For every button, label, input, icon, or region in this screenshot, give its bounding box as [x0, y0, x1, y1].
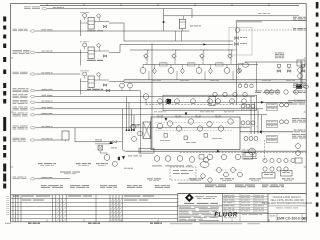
left small notes	[95, 140, 102, 142]
vessel B	[140, 112, 150, 153]
line to right top	[237, 21, 307, 22]
group1 outlet	[109, 23, 124, 41]
bus turn-downs	[126, 97, 135, 132]
mid note	[275, 53, 284, 59]
notes under	[111, 148, 133, 169]
cluster circles left	[131, 125, 143, 142]
header lines mid	[120, 41, 233, 50]
pump/valve groups row	[140, 50, 240, 80]
equip text mid	[60, 172, 80, 174]
long drop vertical	[122, 109, 126, 151]
tiny text above line	[258, 12, 270, 15]
line label L10	[13, 100, 260, 104]
destination labels top right	[293, 17, 306, 21]
line label L2	[13, 29, 164, 32]
in-box dashes	[155, 123, 235, 131]
group header line	[143, 63, 258, 65]
dark arrow mid	[109, 141, 113, 145]
L5 symbols	[106, 83, 140, 112]
offpage line A	[258, 100, 306, 104]
small box X	[98, 146, 103, 151]
title text	[262, 196, 312, 205]
footer text right	[5, 223, 260, 224]
group2 outlet	[109, 44, 120, 52]
capsule label mid	[238, 63, 249, 67]
distribution line y82	[124, 81, 306, 83]
fluor daniel diamond logo	[185, 193, 194, 202]
bubble rows right	[263, 158, 295, 171]
line label L9	[13, 94, 256, 98]
note box top right	[293, 28, 306, 30]
dashed box bottom	[170, 167, 196, 180]
vertical 256	[256, 62, 258, 92]
right instr chain	[295, 144, 302, 163]
line label L4	[13, 72, 81, 75]
dark arrow into box	[185, 113, 188, 116]
dashed instr line	[146, 104, 250, 106]
distribution line labels	[152, 79, 295, 82]
outside bubble	[143, 94, 149, 105]
instrument cluster row3	[244, 136, 278, 143]
bubble 116	[112, 161, 117, 166]
cluster mid bottom	[214, 168, 243, 177]
footer text left	[28, 223, 162, 224]
title fields grid	[223, 194, 269, 213]
rev table hatching	[56, 199, 122, 222]
utility hangers	[277, 64, 305, 72]
bubbles mid right	[265, 90, 298, 94]
instrument bubbles row1	[158, 99, 247, 104]
line y15.8	[164, 15, 300, 17]
line label L1 / top header line	[24, 7, 192, 19]
bubble grid bottom	[207, 154, 240, 159]
instrument bubbles lower	[152, 156, 195, 167]
dark box dist end	[296, 85, 309, 89]
table header texts	[41, 185, 284, 188]
note block right	[288, 100, 305, 104]
rev table entries	[13, 196, 154, 201]
dashed vertical right	[264, 140, 266, 161]
vertical feed line	[163, 9, 165, 31]
line label L5	[13, 88, 141, 92]
title sub text	[276, 207, 298, 210]
rev table columns	[13, 195, 122, 222]
dist small symbols	[238, 82, 253, 87]
horiz exchanger	[242, 150, 254, 160]
line label L3	[13, 50, 81, 54]
main box top fittings	[154, 112, 234, 118]
vertical header drop	[236, 21, 238, 105]
vertical x75	[74, 128, 76, 142]
labeled box bottom 2	[281, 171, 293, 177]
title bottom strip	[223, 207, 308, 222]
dark arrow header	[203, 43, 206, 45]
right notes 1	[293, 84, 306, 88]
vessel E small	[62, 131, 69, 141]
right notes 2	[293, 91, 306, 94]
small box row1	[209, 96, 215, 105]
line bundle verticals	[251, 97, 262, 135]
vessel A	[164, 16, 190, 41]
top main header line	[40, 5, 299, 7]
left small pumps	[199, 155, 212, 183]
instrument bubbles row1b	[213, 92, 247, 96]
pump D	[244, 148, 257, 159]
rev table rows	[11, 195, 178, 219]
bubble 109	[100, 150, 110, 160]
title divider	[268, 205, 306, 207]
distribution line y79	[124, 79, 306, 81]
small fittings col	[235, 37, 248, 46]
svg-text:PIPING AND INSTRUMENTATION DIA: PIPING AND INSTRUMENTATION DIAGRAM	[262, 202, 312, 205]
left margin marks	[3, 17, 6, 189]
main box	[151, 117, 240, 150]
valve small dark	[118, 157, 120, 160]
horiz drum	[128, 148, 154, 156]
line label L12	[13, 113, 268, 117]
main lower line	[126, 150, 306, 153]
logo caption	[184, 196, 218, 203]
oval pump	[200, 162, 209, 168]
group3 outlet	[109, 80, 124, 82]
line label L11	[13, 107, 264, 111]
instrument clusters right	[241, 103, 289, 128]
line label L13	[13, 126, 251, 130]
bottom band line	[178, 182, 306, 184]
left margin fine print	[6, 196, 9, 215]
upper area box	[163, 95, 257, 110]
right column instruments	[297, 60, 305, 83]
instrument FI-1	[235, 28, 294, 33]
title block frame	[178, 194, 306, 222]
vessel A label	[190, 25, 201, 28]
elbow lines left	[75, 141, 122, 144]
dark arrow q4a	[165, 118, 168, 121]
line label L14	[13, 138, 63, 142]
utility line y62	[245, 62, 304, 85]
diamond mid right	[238, 68, 241, 73]
title block fine print	[179, 207, 219, 221]
filter groups x3	[80, 12, 109, 95]
area box top right	[229, 28, 252, 56]
right notes 3	[292, 118, 306, 122]
note lines right of bubbles	[255, 91, 279, 94]
vessel B label	[132, 124, 141, 126]
right margin marks	[316, 2, 319, 217]
svg-text:B: B	[303, 217, 305, 221]
equipment labels row	[38, 163, 294, 181]
line label L15	[13, 177, 71, 180]
bubbles in box	[157, 119, 233, 131]
dark wedge	[122, 156, 125, 159]
dashed line bottom band	[180, 151, 306, 153]
right notes 4	[292, 134, 306, 138]
offpage line B	[240, 130, 306, 134]
in-box small squares	[160, 134, 222, 143]
FLUOR wordmark	[214, 212, 237, 219]
labeled box bottom 1	[262, 173, 275, 179]
main mid vertical	[151, 43, 153, 148]
dark square valve	[167, 99, 172, 104]
